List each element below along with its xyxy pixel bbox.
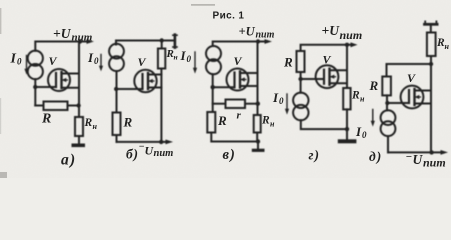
svg-text:R: R	[351, 90, 360, 102]
wire: right vertical (b)	[160, 69, 162, 142]
wire: +U rail of circuit a	[35, 42, 87, 51]
resistor R (a)	[44, 102, 68, 111]
svg-text:R: R	[123, 115, 133, 130]
ground (g)	[338, 139, 357, 143]
current source G1 (v)	[206, 46, 221, 61]
wire: +U rail of circuit b	[116, 41, 174, 45]
-Upit rail arrow (b)	[166, 140, 174, 145]
svg-text:+U: +U	[239, 25, 256, 39]
node: gate junction dot (b)	[114, 87, 118, 91]
svg-text:V: V	[323, 53, 332, 67]
I0 arrow (g)	[286, 94, 288, 110]
svg-text:пит: пит	[72, 32, 93, 44]
svg-text:пит: пит	[154, 148, 174, 159]
wire: right vertical (d)	[430, 64, 432, 152]
resistor R (v)	[207, 112, 215, 133]
scan smudge left edge top	[0, 8, 1, 34]
node: bottom junction dot (v)	[256, 139, 260, 143]
wire: gate lead (d)	[387, 102, 409, 104]
svg-text:н: н	[445, 42, 450, 51]
wire: Rn top lead (b)	[161, 41, 163, 49]
svg-text:в): в)	[223, 147, 236, 163]
wire: left branch down from source (a)	[34, 79, 36, 105]
wire: gate lead (b)	[116, 88, 142, 90]
svg-text:I: I	[355, 124, 362, 139]
wire: drain lead (b)	[148, 74, 161, 76]
svg-text:а): а)	[61, 152, 76, 169]
node: rail junction dot (a)	[78, 39, 82, 43]
svg-text:r: r	[237, 110, 242, 122]
wire: jog to left branch (d)	[387, 64, 432, 77]
I0 arrow (a)	[26, 56, 28, 70]
wire: source lead (d)	[415, 103, 432, 105]
wire: R bottom lead (d)	[386, 95, 388, 110]
transistor V (g) FET in circle	[316, 65, 339, 88]
resistor R (b)	[113, 113, 121, 136]
svg-text:R: R	[369, 78, 379, 93]
wire: Rn to ground (a)	[78, 136, 80, 144]
svg-text:−: −	[406, 151, 413, 163]
wire: r right lead (v)	[245, 103, 258, 105]
wire: drain lead (v)	[240, 72, 258, 74]
svg-text:0: 0	[17, 57, 22, 67]
wire: bottom rail (b)	[117, 141, 167, 143]
current source G1 (a)	[28, 51, 43, 66]
wire: source lead (b)	[148, 87, 161, 89]
scan smudge left edge middle	[0, 98, 1, 134]
node: rail junction dot (g)	[345, 43, 349, 47]
wire: source lead to right rail (a)	[62, 87, 80, 89]
node: bottom junction dot (d)	[429, 150, 433, 154]
wire: r left lead (v)	[213, 103, 226, 105]
wire: +U rail of circuit g	[301, 45, 352, 51]
svg-text:Рис. 1: Рис. 1	[213, 11, 245, 22]
current source G1 (d)	[381, 110, 396, 125]
node: R junction dot (a)	[76, 103, 80, 107]
svg-text:пит: пит	[340, 28, 363, 42]
wire: current source to bottom rail (d)	[387, 136, 389, 152]
svg-text:0: 0	[94, 56, 99, 66]
wire: source lead (v)	[240, 85, 258, 87]
wire: R left lead (a)	[35, 105, 43, 107]
wire: bottom rail (d)	[388, 151, 442, 153]
node: rail junction dot (v)	[256, 39, 260, 43]
+Upit rail arrow (g)	[351, 42, 358, 47]
current source G1 (g)	[293, 93, 308, 108]
current source G1 (b)	[109, 44, 124, 59]
I0 arrow (b)	[100, 55, 102, 67]
svg-text:R: R	[41, 112, 51, 127]
wire: drain lead (g)	[330, 69, 348, 71]
svg-text:R: R	[261, 115, 270, 127]
svg-text:V: V	[49, 54, 58, 68]
svg-text:н: н	[360, 95, 365, 104]
terminal bar (d)	[425, 23, 438, 26]
svg-text:U: U	[413, 152, 424, 167]
wire: gate lead (g)	[301, 78, 324, 80]
svg-text:н: н	[270, 120, 275, 129]
svg-text:R: R	[217, 113, 227, 128]
wire: bottom left corner (g)	[301, 120, 347, 129]
node: r junction dot (v)	[256, 102, 260, 106]
svg-text:R: R	[84, 117, 93, 129]
svg-text:V: V	[407, 71, 416, 85]
svg-text:I: I	[180, 48, 187, 63]
wire: R right lead (a)	[68, 105, 80, 107]
scan streak above caption	[191, 4, 215, 5]
svg-text:R: R	[283, 55, 293, 70]
scan smudge bottom left	[0, 172, 7, 178]
svg-text:0: 0	[187, 54, 192, 64]
wire: gate lead (v)	[213, 86, 235, 88]
transistor V (a) FET in circle	[48, 69, 70, 91]
wire: left branch down (v)	[212, 74, 214, 112]
wire: right vertical (g)	[346, 45, 348, 88]
node: rail junction dot (b)	[160, 38, 164, 42]
wire: R bottom to current source (g)	[300, 72, 302, 93]
I0 arrow (d)	[372, 110, 374, 122]
resistor Rn (g)	[343, 88, 350, 109]
node: gate junction dot (a)	[33, 85, 37, 89]
transistor V (b) FET in circle	[134, 70, 156, 92]
wire: source lead (g)	[330, 82, 348, 84]
svg-text:д): д)	[369, 149, 382, 164]
wire: terminal to Rn (d)	[430, 26, 432, 33]
wire: drain lead (d)	[415, 90, 432, 92]
wire: bottom rail (v)	[211, 133, 258, 142]
terminal bar (b)	[174, 35, 177, 48]
wire: Rn bottom lead (g)	[346, 109, 348, 129]
transistor V (v) FET in circle	[227, 69, 249, 91]
svg-text:I: I	[87, 50, 94, 65]
paper background	[0, 0, 451, 178]
+Upit rail arrow (circuit a)	[87, 39, 95, 44]
wire: Rn bottom lead (v)	[256, 133, 258, 142]
resistor R (g)	[297, 51, 305, 72]
resistor Rn (d)	[427, 33, 436, 57]
wire: drain lead to right rail (a)	[62, 73, 80, 75]
-Upit rail arrow (d)	[441, 150, 449, 155]
wire: ground stem (v)	[257, 142, 259, 149]
svg-text:I: I	[272, 90, 279, 105]
wire: gate lead (a)	[35, 86, 56, 88]
wire: ground stem (g)	[346, 129, 348, 139]
resistor Rn (v)	[254, 115, 261, 133]
node: jog junction dot (d)	[429, 62, 433, 66]
svg-text:0: 0	[362, 130, 367, 140]
svg-text:пит: пит	[256, 30, 275, 41]
svg-text:+U: +U	[53, 26, 72, 41]
node: gate junction dot (d)	[385, 101, 389, 105]
I0 arrow (v)	[194, 52, 196, 69]
svg-text:V: V	[138, 55, 147, 69]
node: bottom junction dot (b)	[159, 140, 163, 144]
svg-text:V: V	[234, 54, 243, 68]
wire: left branch down (b)	[116, 71, 118, 112]
svg-text:I: I	[10, 52, 17, 67]
ground (a)	[72, 144, 86, 148]
svg-text:г): г)	[309, 148, 320, 163]
wire: +U rail of circuit v	[213, 42, 266, 47]
resistor R (d)	[382, 77, 391, 96]
svg-text:+U: +U	[322, 23, 341, 38]
svg-text:н: н	[93, 122, 98, 131]
transistor V (d) FET in circle	[401, 86, 424, 109]
svg-text:пит: пит	[423, 156, 446, 170]
resistor r (v)	[226, 100, 246, 109]
wire: right vertical (a)	[78, 42, 80, 118]
svg-text:б): б)	[126, 147, 139, 162]
svg-text:н: н	[174, 53, 178, 62]
node: bottom junction dot (g)	[345, 127, 349, 131]
+Upit rail arrow (v)	[265, 39, 273, 44]
resistor Rn (a)	[75, 117, 83, 136]
wire: R bottom lead (b)	[116, 135, 118, 142]
node: gate junction dot (g)	[298, 77, 302, 81]
node: gate junction dot (v)	[211, 85, 215, 89]
wire: Rn bottom lead (d)	[430, 56, 432, 64]
resistor Rn (b)	[158, 49, 165, 69]
ground (v)	[252, 149, 265, 152]
svg-text:0: 0	[279, 96, 284, 106]
wire: right vertical (v)	[257, 42, 259, 116]
